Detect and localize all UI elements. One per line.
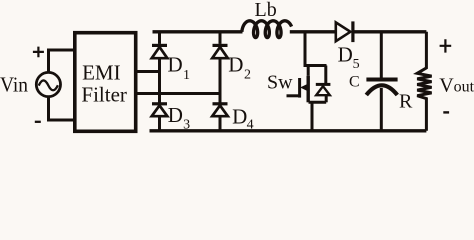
diode D3: [152, 104, 168, 116]
svg-text:EMI: EMI: [82, 61, 121, 85]
ac source Vin: [36, 72, 60, 96]
svg-text:2: 2: [244, 68, 251, 83]
svg-text:V: V: [439, 74, 454, 96]
inductor Lb: [242, 21, 292, 38]
bridge right leg middle: [219, 58, 222, 103]
svg-text:D: D: [168, 53, 183, 77]
svg-text:out: out: [454, 78, 474, 95]
wire source bottom to EMI box: [47, 119, 77, 122]
label D1: [168, 53, 191, 84]
diode D5: [336, 21, 353, 42]
svg-text:5: 5: [353, 57, 360, 72]
svg-text:R: R: [399, 90, 413, 112]
wire source to bottom rail: [311, 102, 314, 131]
bridge right leg upper: [219, 32, 222, 44]
label D5: [338, 42, 360, 72]
diode D2: [212, 45, 228, 58]
body diode triangle: [316, 86, 330, 95]
capacitor C lower lead: [380, 88, 383, 131]
label Vin minus: [35, 121, 41, 123]
transistor Sw source horizontal: [309, 101, 327, 104]
svg-text:D: D: [338, 42, 353, 66]
bridge left leg lower: [158, 116, 161, 131]
bridge left leg upper: [158, 32, 161, 44]
svg-text:C: C: [349, 74, 360, 91]
label D2: [228, 53, 251, 83]
capacitor C branch upper: [380, 32, 383, 79]
svg-text:Filter: Filter: [81, 83, 127, 107]
capacitor C top plate: [366, 78, 397, 82]
label D4: [232, 104, 254, 132]
resistor R upper lead and zigzag: [417, 32, 431, 131]
diode D4: [212, 104, 228, 116]
EMI filter box: [75, 33, 136, 132]
svg-text:4: 4: [247, 118, 254, 133]
label Vout minus: [443, 111, 449, 113]
transistor Sw gate lead: [287, 94, 300, 97]
svg-text:D: D: [232, 104, 247, 128]
body diode lower lead: [325, 95, 328, 102]
top rail D5 to output corner: [354, 30, 426, 33]
svg-text:3: 3: [183, 117, 190, 132]
wire drain branch: [305, 32, 327, 66]
svg-text:1: 1: [183, 68, 190, 83]
capacitor C curved plate: [366, 85, 397, 95]
label Vin plus: [33, 47, 44, 58]
bridge right leg lower: [219, 116, 222, 131]
transistor Sw gate bar: [298, 78, 301, 98]
svg-text:Lb: Lb: [255, 0, 277, 21]
wire drain to channel: [307, 66, 310, 76]
label D3: [168, 103, 190, 132]
wire EMI to bridge node B: [136, 92, 220, 95]
svg-text:D: D: [168, 103, 183, 127]
wire source top stub: [47, 50, 50, 73]
wire source bottom stub: [47, 96, 50, 120]
top rail from bridge to inductor: [153, 30, 243, 33]
body diode branch upper: [324, 66, 327, 84]
svg-text:D: D: [228, 53, 243, 77]
body diode bar: [316, 83, 331, 86]
label Vout plus: [440, 39, 452, 52]
wire EMI to bridge node A: [136, 70, 160, 73]
bridge left leg middle: [158, 58, 161, 103]
bottom rail: [150, 129, 427, 132]
wire source top to EMI box: [47, 49, 77, 52]
diode D1: [152, 45, 168, 58]
transistor Sw arrow: [301, 85, 306, 90]
top rail inductor to drain node to D5: [290, 30, 337, 33]
svg-text:Sw: Sw: [267, 72, 293, 94]
svg-text:Vin: Vin: [0, 73, 28, 97]
transistor Sw channel bar: [307, 76, 310, 103]
